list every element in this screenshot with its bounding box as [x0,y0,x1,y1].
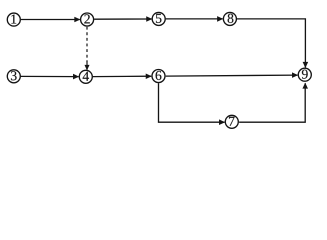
wire arrow 3->4 [21,75,79,77]
wire elbow arrow 8->9 (right then down into node 9 top) [237,19,306,68]
node 9 [298,68,311,81]
wire arrow 1->2 [21,19,80,21]
dashed arrow 2->4 [86,27,88,62]
node 5 [152,12,165,25]
node 6 [152,70,165,83]
wire arrow 2->5 [94,18,152,20]
node 3 [7,70,20,83]
node 4 [79,70,92,83]
wire arrow 5->8 [166,18,223,20]
wire elbow arrow 7->9 (right then up into node 9 bottom) [239,83,305,122]
wire elbow arrow 6->7 (down then right into node 7) [159,83,225,122]
wire arrow 4->6 [93,75,151,77]
node 2 [81,13,94,26]
node 1 [7,13,20,26]
node 8 [223,12,236,25]
wire arrow 6->9 [166,75,298,76]
node 7 [225,115,238,128]
